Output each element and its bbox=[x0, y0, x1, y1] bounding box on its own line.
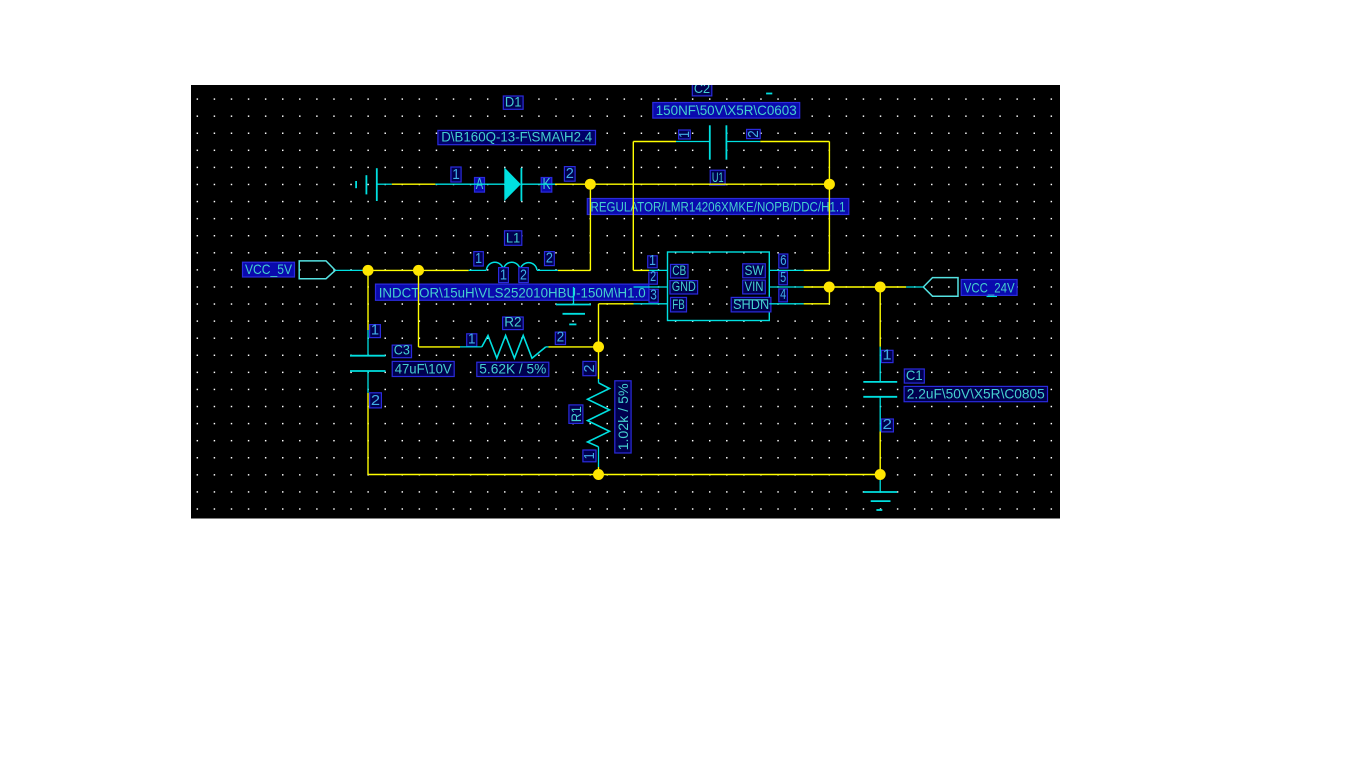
svg-text:1: 1 bbox=[676, 131, 693, 138]
svg-text:D1: D1 bbox=[505, 93, 522, 109]
svg-text:REGULATOR/LMR14206XMKE/NOPB/DD: REGULATOR/LMR14206XMKE/NOPB/DDC/H1.1 bbox=[591, 199, 846, 215]
svg-text:1: 1 bbox=[371, 322, 379, 339]
svg-text:2.2uF\50V\X5R\C0805: 2.2uF\50V\X5R\C0805 bbox=[907, 386, 1045, 402]
svg-text:5.62K / 5%: 5.62K / 5% bbox=[479, 361, 546, 377]
svg-text:1: 1 bbox=[475, 250, 482, 267]
svg-text:2: 2 bbox=[581, 365, 598, 373]
svg-text:FB: FB bbox=[672, 297, 685, 312]
svg-text:R2: R2 bbox=[504, 314, 522, 330]
svg-text:150NF\50V\X5R\C0603: 150NF\50V\X5R\C0603 bbox=[656, 102, 797, 118]
svg-text:C1: C1 bbox=[906, 367, 923, 383]
svg-text:2: 2 bbox=[745, 130, 762, 138]
svg-text:3: 3 bbox=[650, 286, 657, 303]
svg-text:2: 2 bbox=[883, 416, 893, 433]
svg-text:SHDN: SHDN bbox=[733, 297, 769, 312]
svg-text:2: 2 bbox=[557, 329, 565, 346]
svg-text:2: 2 bbox=[546, 250, 553, 267]
svg-text:2: 2 bbox=[371, 392, 380, 409]
svg-text:SW: SW bbox=[744, 263, 763, 278]
svg-text:GND: GND bbox=[672, 279, 696, 294]
svg-text:5: 5 bbox=[780, 269, 786, 286]
svg-text:4: 4 bbox=[780, 286, 786, 303]
svg-text:1: 1 bbox=[452, 166, 460, 183]
svg-text:R1: R1 bbox=[568, 406, 584, 422]
svg-text:47uF\10V: 47uF\10V bbox=[395, 361, 453, 377]
svg-text:6: 6 bbox=[780, 252, 786, 269]
svg-text:1: 1 bbox=[581, 452, 598, 459]
svg-text:U1: U1 bbox=[712, 169, 724, 185]
svg-text:CB: CB bbox=[672, 263, 686, 278]
svg-text:1.02k / 5%: 1.02k / 5% bbox=[615, 383, 631, 450]
svg-text:VIN: VIN bbox=[744, 279, 763, 294]
svg-text:C3: C3 bbox=[394, 342, 410, 358]
svg-text:VCC_5V: VCC_5V bbox=[245, 261, 293, 277]
svg-text:VCC_24V: VCC_24V bbox=[964, 279, 1016, 295]
svg-text:1: 1 bbox=[649, 252, 656, 269]
svg-text:2: 2 bbox=[520, 267, 527, 284]
svg-text:2: 2 bbox=[566, 165, 574, 182]
svg-text:1: 1 bbox=[883, 347, 892, 364]
svg-text:D\B160Q-13-F\SMA\H2.4: D\B160Q-13-F\SMA\H2.4 bbox=[441, 129, 592, 145]
svg-text:L1: L1 bbox=[506, 229, 520, 245]
svg-text:1: 1 bbox=[468, 330, 476, 347]
svg-text:1: 1 bbox=[500, 267, 507, 284]
